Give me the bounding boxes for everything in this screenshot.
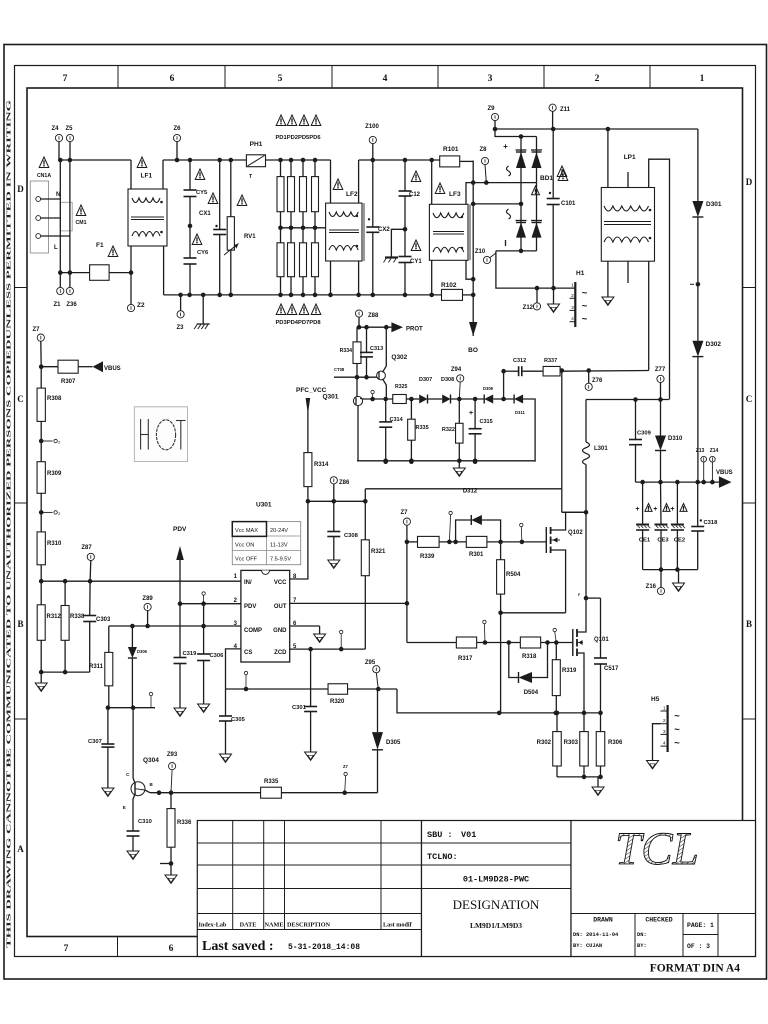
svg-text:~: ~ xyxy=(674,711,680,722)
resistor R309 xyxy=(37,441,62,512)
svg-text:R338: R338 xyxy=(70,614,85,620)
wire Q301 gnd rail xyxy=(357,459,535,464)
resistor R325 xyxy=(393,384,408,404)
svg-text:DESCRIPTION: DESCRIPTION xyxy=(287,922,331,929)
svg-text:3: 3 xyxy=(571,305,574,311)
wire pin8 VCC xyxy=(290,501,308,579)
capacitor C313 xyxy=(360,327,383,379)
svg-text:3: 3 xyxy=(488,74,493,84)
test point Z7b xyxy=(400,510,410,643)
wire to D307 xyxy=(406,397,419,402)
wire PD junction row xyxy=(281,227,326,229)
wire OUT row2 xyxy=(407,642,456,644)
svg-text:V01: V01 xyxy=(461,830,476,840)
svg-text:CM1: CM1 xyxy=(76,220,87,226)
svg-text:C308: C308 xyxy=(344,533,359,539)
test point Z77 xyxy=(655,367,666,400)
wire LF2 right top xyxy=(358,160,360,203)
pad gate2 xyxy=(483,620,486,642)
svg-text:Z87: Z87 xyxy=(81,545,92,551)
svg-text:Z8: Z8 xyxy=(479,147,487,153)
capacitor CE3 xyxy=(653,482,670,572)
svg-text:Vcc ON: Vcc ON xyxy=(235,543,254,549)
svg-text:Z10: Z10 xyxy=(475,249,486,255)
warning LF1 xyxy=(137,157,152,180)
wire PROT row xyxy=(357,325,392,330)
net arrow BO xyxy=(468,322,478,354)
svg-text:THIS DRAWING CANNOT BE COMMUNI: THIS DRAWING CANNOT BE COMMUNICATED TO U… xyxy=(6,100,13,948)
svg-text:U301: U301 xyxy=(256,502,272,509)
test point Z5 xyxy=(65,126,73,160)
svg-text:DESIGNATION: DESIGNATION xyxy=(453,897,540,912)
TCL logo xyxy=(615,823,699,875)
resistor R306 xyxy=(596,711,623,777)
svg-text:C307: C307 xyxy=(88,739,102,745)
test point Z14 xyxy=(710,448,719,482)
svg-text:Z16: Z16 xyxy=(646,584,657,590)
svg-text:CE1: CE1 xyxy=(639,538,651,544)
svg-text:VBUS: VBUS xyxy=(104,366,121,372)
svg-text:COMP: COMP xyxy=(244,628,262,634)
svg-text:Z7: Z7 xyxy=(400,510,408,516)
svg-text:D307: D307 xyxy=(419,377,432,383)
last saved note xyxy=(202,939,360,954)
svg-text:20-24V: 20-24V xyxy=(270,528,288,534)
svg-text:C313: C313 xyxy=(370,346,383,352)
svg-text:R302: R302 xyxy=(537,740,552,746)
pad gate1 xyxy=(520,523,523,542)
wire drain rail xyxy=(562,400,589,601)
test point Z9 xyxy=(487,106,498,129)
svg-text:Z36: Z36 xyxy=(66,302,77,308)
test point Z2 xyxy=(127,273,145,312)
svg-text:SBU :: SBU : xyxy=(427,830,453,840)
test point Z93 xyxy=(167,752,178,793)
capacitor C314 xyxy=(379,399,403,464)
pad CS row xyxy=(244,671,247,689)
svg-text:Z5: Z5 xyxy=(65,126,73,132)
svg-text:R337: R337 xyxy=(544,358,557,364)
svg-text:BY:: BY: xyxy=(637,943,647,949)
svg-text:LF2: LF2 xyxy=(346,191,358,198)
svg-text:R321: R321 xyxy=(371,549,386,555)
svg-text:LP1: LP1 xyxy=(624,154,636,161)
transistor Q302 xyxy=(377,327,408,399)
svg-text:Z89: Z89 xyxy=(142,596,153,602)
resistor R317 xyxy=(456,637,520,662)
resistor R337 xyxy=(543,358,560,376)
svg-text:R317: R317 xyxy=(458,656,473,662)
wire LP1 br xyxy=(648,261,650,370)
wire LF1 br xyxy=(163,246,165,295)
svg-text:5-31-2018_14:08: 5-31-2018_14:08 xyxy=(288,943,360,952)
diode D309 xyxy=(483,386,514,404)
svg-text:LF3: LF3 xyxy=(449,191,461,198)
svg-text:H5: H5 xyxy=(651,696,660,703)
wire PH1 to LF2 xyxy=(266,158,331,163)
svg-text:6: 6 xyxy=(170,74,175,84)
svg-text:R311: R311 xyxy=(89,664,104,670)
svg-text:1: 1 xyxy=(700,74,705,84)
test point Z13 xyxy=(696,448,707,482)
wire pin2 PDV xyxy=(178,601,241,606)
svg-text:Q301: Q301 xyxy=(322,394,338,401)
svg-text:Z94: Z94 xyxy=(451,367,462,373)
svg-text:+: + xyxy=(469,410,473,417)
transformer LP1 xyxy=(601,154,654,261)
resistor R308 xyxy=(37,367,62,441)
pad ZCD xyxy=(340,630,343,649)
svg-text:C101: C101 xyxy=(561,201,576,207)
test point Z36 xyxy=(66,273,77,308)
svg-text:C: C xyxy=(17,394,24,404)
svg-text:CHECKED: CHECKED xyxy=(645,917,672,924)
svg-text:4: 4 xyxy=(571,316,574,322)
capacitor C12 xyxy=(399,160,421,232)
svg-text:T: T xyxy=(249,174,252,180)
wire base row xyxy=(334,367,377,377)
schematic inner frame xyxy=(27,88,743,937)
connector CN1 xyxy=(30,181,70,253)
svg-text:D312: D312 xyxy=(463,489,478,495)
test point Z8 xyxy=(479,147,488,183)
warning CN1A xyxy=(37,157,51,179)
svg-text:~: ~ xyxy=(674,725,680,736)
svg-text:01-LM9D28-PWC: 01-LM9D28-PWC xyxy=(463,875,529,885)
svg-text:L301: L301 xyxy=(594,446,608,452)
top zone dividers xyxy=(118,66,650,89)
svg-text:C: C xyxy=(746,394,753,404)
wire mains top xyxy=(58,158,131,163)
wire pin5 ZCD xyxy=(290,647,366,652)
svg-text:C310: C310 xyxy=(138,819,152,825)
test point Z11 xyxy=(549,104,571,129)
svg-text:BY: CUJAN: BY: CUJAN xyxy=(573,943,602,949)
approval cells xyxy=(635,914,718,957)
svg-text:~: ~ xyxy=(582,314,588,325)
svg-text:D305: D305 xyxy=(386,740,401,746)
svg-text:D504: D504 xyxy=(524,690,539,696)
wire R102 out xyxy=(463,294,474,296)
svg-text:DATE: DATE xyxy=(240,922,257,929)
wire CS to source rail xyxy=(397,689,601,715)
svg-text:PD1PD2PD5PD6: PD1PD2PD5PD6 xyxy=(275,135,321,141)
resistor R504 xyxy=(497,542,521,615)
svg-text:C12: C12 xyxy=(409,192,421,198)
svg-text:PFC_VCC: PFC_VCC xyxy=(296,387,327,394)
resistors PD1 PD2 PD5 PD6 xyxy=(277,160,319,230)
zone letters xyxy=(17,177,753,854)
pad N2b xyxy=(39,510,61,516)
svg-text:Z100: Z100 xyxy=(365,124,379,130)
test point Z10 xyxy=(475,249,496,264)
diode D305 xyxy=(372,689,401,793)
diode bypass D503 xyxy=(449,511,501,542)
relay contact PH1 xyxy=(246,141,265,180)
resistor R311 xyxy=(89,626,113,708)
svg-text:CX1: CX1 xyxy=(199,211,211,217)
svg-text:1: 1 xyxy=(663,706,666,712)
transformer LF2 xyxy=(326,203,364,261)
approval texts xyxy=(573,917,714,951)
svg-text:R314: R314 xyxy=(314,462,329,468)
svg-text:LM9D1/LM9D3: LM9D1/LM9D3 xyxy=(470,921,522,930)
wire sense branch xyxy=(501,369,506,399)
svg-text:NAME: NAME xyxy=(265,922,284,929)
svg-text:7: 7 xyxy=(63,74,68,84)
wire CE gnd rail xyxy=(643,569,698,571)
svg-text:R102: R102 xyxy=(441,282,457,289)
svg-text:Z3: Z3 xyxy=(176,325,184,331)
ground CE rail xyxy=(673,570,685,592)
TCLNO row xyxy=(427,852,458,862)
svg-text:DN:: DN: xyxy=(637,932,647,938)
svg-text:DN: 2014-11-04: DN: 2014-11-04 xyxy=(573,932,619,938)
wire collector row xyxy=(106,705,155,710)
wire pin7 OUT xyxy=(290,601,410,606)
wire VBUS rail xyxy=(636,480,719,485)
top zone numbers xyxy=(63,74,705,84)
svg-text:Z11: Z11 xyxy=(560,107,571,113)
svg-text:Z93: Z93 xyxy=(167,752,178,758)
svg-text:R306: R306 xyxy=(608,740,623,746)
svg-text:R310: R310 xyxy=(47,541,62,547)
bridge BD1 xyxy=(495,129,567,251)
svg-text:Z7: Z7 xyxy=(343,764,349,769)
capacitor C309 xyxy=(629,400,652,483)
resistor R303 xyxy=(564,713,589,777)
svg-text:2: 2 xyxy=(571,293,574,299)
test point Z7a xyxy=(32,327,44,367)
wire LP1 tm xyxy=(627,172,629,188)
svg-text:R301: R301 xyxy=(469,552,484,558)
mosfet Q102 xyxy=(546,512,583,613)
svg-text:Q304: Q304 xyxy=(143,757,159,764)
resistor R312 xyxy=(37,581,61,672)
diode D307 xyxy=(419,377,442,404)
svg-text:R303: R303 xyxy=(564,740,579,746)
svg-text:R339: R339 xyxy=(420,554,435,560)
wire CS row xyxy=(226,687,398,692)
svg-text:Vcc MAX: Vcc MAX xyxy=(235,528,258,534)
net arrow PDV xyxy=(173,526,187,604)
svg-text:Z95: Z95 xyxy=(365,660,376,666)
svg-text:E: E xyxy=(123,805,126,810)
svg-text:C312: C312 xyxy=(513,358,526,364)
wire base row Q304 xyxy=(150,790,261,795)
ground left chain xyxy=(35,672,47,691)
svg-text:Vcc OFF: Vcc OFF xyxy=(235,557,258,563)
svg-text:Z77: Z77 xyxy=(655,367,666,373)
svg-text:D311: D311 xyxy=(515,410,525,415)
svg-text:PD3PD4PD7PD8: PD3PD4PD7PD8 xyxy=(275,320,321,326)
diode D504 xyxy=(509,643,548,697)
diode D301 xyxy=(690,129,722,341)
svg-text:C314: C314 xyxy=(390,417,404,423)
transformer LF1 xyxy=(128,189,167,246)
ground LP1 xyxy=(602,297,614,305)
svg-text:Z13: Z13 xyxy=(696,448,705,454)
svg-text:Z4: Z4 xyxy=(51,126,59,132)
svg-text:OUT: OUT xyxy=(274,604,287,610)
svg-text:Last modif: Last modif xyxy=(383,922,413,929)
svg-text:C318: C318 xyxy=(704,520,719,526)
wire A out xyxy=(560,368,649,373)
svg-text:R325: R325 xyxy=(395,384,408,390)
revision table xyxy=(197,821,421,957)
capacitor C307 xyxy=(88,708,114,797)
svg-text:L: L xyxy=(54,245,58,251)
svg-text:2: 2 xyxy=(663,718,666,724)
ground source xyxy=(592,777,604,796)
pad N2a xyxy=(39,439,61,445)
svg-text:~: ~ xyxy=(674,738,680,749)
test point Z86 xyxy=(330,477,350,502)
svg-text:Q101: Q101 xyxy=(594,637,609,643)
svg-text:VCC: VCC xyxy=(274,580,287,586)
svg-text:B: B xyxy=(17,619,23,629)
resistor R335 xyxy=(261,779,378,798)
connector H5 xyxy=(647,696,681,769)
wire LF2 bl xyxy=(330,261,332,295)
svg-text:A: A xyxy=(17,844,24,854)
svg-text:Z9: Z9 xyxy=(487,106,495,112)
svg-text:ZCD: ZCD xyxy=(274,650,287,656)
logo block frame xyxy=(571,821,756,957)
varistor RV1 xyxy=(224,160,256,295)
fuse F1 xyxy=(90,242,118,280)
svg-text:CT08: CT08 xyxy=(334,367,345,372)
wire LP1 bm xyxy=(627,261,629,283)
capacitor C301 xyxy=(292,649,317,760)
net arrow VBUS in xyxy=(93,361,121,372)
svg-text:BO: BO xyxy=(468,347,478,354)
capacitor C318 xyxy=(691,482,718,569)
label HOT xyxy=(134,407,187,462)
svg-text:1: 1 xyxy=(571,283,574,289)
ground earth rail xyxy=(194,293,210,329)
diode D306 xyxy=(128,626,148,708)
title info block xyxy=(422,821,572,957)
wire fuse row xyxy=(58,270,90,275)
svg-text:D310: D310 xyxy=(668,436,683,442)
ground stub CY1 xyxy=(384,229,406,262)
wire LF3 br xyxy=(466,260,473,279)
svg-text:R504: R504 xyxy=(506,572,521,578)
transistor Q301 xyxy=(322,394,363,461)
wire drain feed xyxy=(561,371,563,513)
svg-text:+: + xyxy=(635,506,639,513)
svg-text:R335: R335 xyxy=(264,779,279,785)
wire LP1 tr xyxy=(649,159,670,399)
test point Z89 xyxy=(142,596,153,626)
svg-text:TCLNO:: TCLNO: xyxy=(427,852,458,862)
svg-text:Q302: Q302 xyxy=(391,354,407,361)
table Vcc levels xyxy=(232,522,300,565)
svg-text:R101: R101 xyxy=(443,146,459,153)
svg-text:R312: R312 xyxy=(47,614,62,620)
resistor R338 xyxy=(61,581,85,672)
svg-text:~: ~ xyxy=(582,288,588,299)
mosfet Q101 xyxy=(573,598,610,713)
pad coll row xyxy=(149,692,152,707)
svg-text:C301: C301 xyxy=(292,705,307,711)
warnings PD1-PD6 xyxy=(275,115,321,141)
svg-text:C315: C315 xyxy=(480,419,493,425)
svg-text:PROT: PROT xyxy=(406,327,423,333)
pad gate2b xyxy=(553,628,556,642)
resistor R336 xyxy=(160,793,192,884)
svg-text:PDV: PDV xyxy=(244,604,256,610)
svg-text:PH1: PH1 xyxy=(250,141,263,148)
wire N drop xyxy=(59,160,61,273)
capacitor CX2 xyxy=(366,160,390,295)
capacitor CY1 xyxy=(399,229,423,295)
test point Z4 xyxy=(51,126,62,160)
wire AC top xyxy=(493,127,698,132)
svg-text:CN1A: CN1A xyxy=(37,173,51,179)
bottom zone numbers xyxy=(64,937,174,957)
svg-text:5: 5 xyxy=(278,74,283,84)
diode D311 xyxy=(514,395,535,462)
diode D302 xyxy=(692,341,721,482)
svg-text:CE2: CE2 xyxy=(674,538,685,544)
svg-text:PAGE: 1: PAGE: 1 xyxy=(687,922,714,929)
svg-text:11-13V: 11-13V xyxy=(270,543,288,549)
wire Q301 row xyxy=(363,397,393,402)
svg-text:D302: D302 xyxy=(706,341,722,348)
wire C517 row xyxy=(578,593,601,598)
svg-text:Z76: Z76 xyxy=(592,378,603,384)
wire bridge bottom xyxy=(496,249,575,291)
wire top mid xyxy=(163,158,246,163)
svg-text:CE3: CE3 xyxy=(657,538,669,544)
svg-text:R336: R336 xyxy=(177,820,192,826)
svg-text:C309: C309 xyxy=(637,431,652,437)
svg-text:PDV: PDV xyxy=(173,526,187,533)
capacitor C101 xyxy=(547,129,576,288)
svg-text:LF1: LF1 xyxy=(141,173,153,180)
wire LF3 bl xyxy=(431,260,433,295)
wire LF2 top xyxy=(330,160,332,203)
net arrow PROT xyxy=(391,322,423,332)
confidential vertical text xyxy=(6,100,13,948)
resistor R320 xyxy=(328,684,348,705)
wire pin3 COMP xyxy=(109,624,241,629)
side zone dividers xyxy=(15,288,756,720)
resistor R319 xyxy=(552,643,577,713)
capacitor C517 xyxy=(594,598,619,713)
resistor R335a xyxy=(408,399,429,464)
svg-text:Z88: Z88 xyxy=(368,313,379,319)
svg-text:3: 3 xyxy=(663,729,666,735)
svg-text:R334: R334 xyxy=(340,348,353,354)
resistor R318 xyxy=(520,637,572,660)
ground C101 xyxy=(548,288,560,312)
resistor R322 xyxy=(442,399,463,461)
svg-text:R322: R322 xyxy=(442,427,455,433)
svg-text:Z1: Z1 xyxy=(53,302,61,308)
designation xyxy=(453,897,540,930)
svg-text:C319: C319 xyxy=(183,651,198,657)
svg-text:D: D xyxy=(746,177,753,187)
svg-text:Z12: Z12 xyxy=(523,305,534,311)
svg-text:R318: R318 xyxy=(522,654,537,660)
wire D312 xyxy=(365,489,586,513)
capacitor CE1 xyxy=(635,482,652,569)
wire F1 to LF1 xyxy=(109,270,133,275)
svg-text:~: ~ xyxy=(582,301,588,312)
